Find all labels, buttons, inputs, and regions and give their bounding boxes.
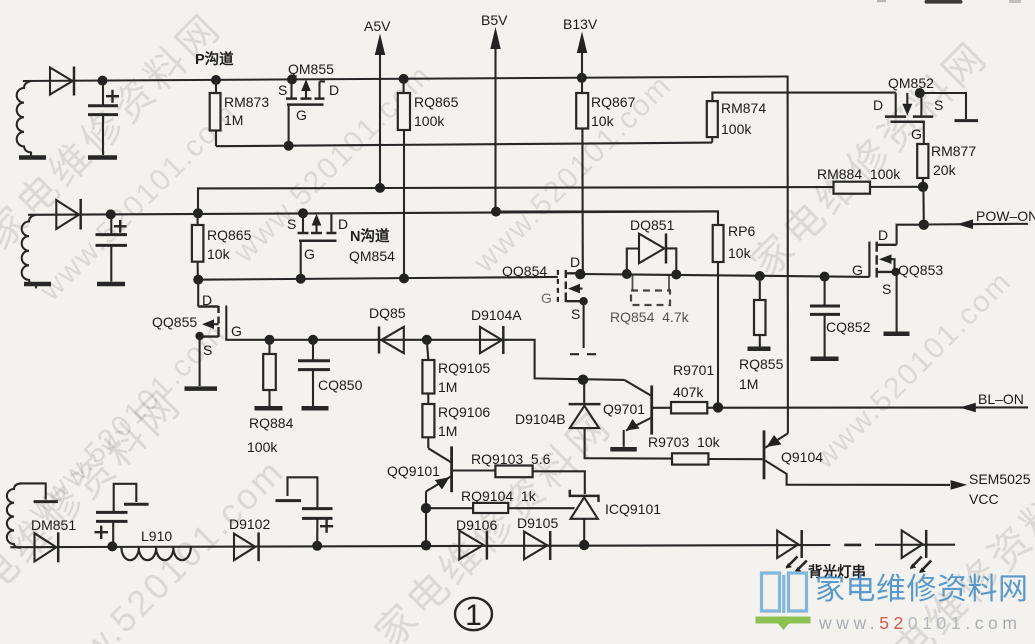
resistor RM877 20k [923,122,925,144]
ground (under RQ884) [255,406,283,411]
power rail B5V [494,47,496,212]
svg-text:家电维修资料网: 家电维修资料网 [815,573,1029,606]
transistor Q9701 (NPN) [650,386,653,435]
diode D9106 [459,531,483,560]
ground (under top-left coil) [19,155,46,160]
inductor T1b winding (second coil) [22,215,36,289]
wire main bottom row (right part) [875,544,955,546]
resistor RQ9104 1k (horizontal) [426,507,473,509]
ground (under CQ850) [302,406,329,411]
svg-text:ICQ9101: ICQ9101 [605,501,661,517]
svg-text:BL–ON: BL–ON [978,391,1024,407]
power rail A5V [379,53,381,188]
resistor RQ9105 1M [427,340,429,360]
wire LED series dash [844,544,861,547]
svg-text:L910: L910 [141,528,172,544]
page number circle 1 [455,598,492,630]
svg-text:RQ867: RQ867 [591,94,636,110]
svg-text:POW–ON: POW–ON [976,208,1035,224]
ground (under C2) [97,282,125,287]
svg-text:P沟道: P沟道 [195,50,234,68]
svg-text:N沟道: N沟道 [350,227,390,245]
diode D9102 [234,534,255,561]
capacitor C2 (electrolytic, second row) [110,214,112,234]
node (QM855 gate / gate row) [284,141,294,151]
node (QM855 source on rail) [287,74,297,84]
svg-text:CQ852: CQ852 [826,319,871,335]
wire BL-ON row (Q9701 base row, y~407.5) [653,406,1028,408]
node (row2 / C2 +) [106,209,116,219]
inductor T1a winding (top-left coil) [17,81,31,156]
node (row340 / RQ884 top) [265,335,275,345]
node (ICQ9101 / bottom row) [579,540,589,550]
resistor RP6 10k [496,211,719,225]
node (bottom row / C-d9 +) [312,541,322,551]
diode D1 (top-left rectifier) [50,68,73,95]
wire top rail P-channel (row1) [23,77,786,82]
wire row274 (B13V / QQ854 drain to QQ853 gate) [581,274,869,277]
node (rail1 / B13V / RQ867) [577,73,587,83]
svg-text:D9104B: D9104B [515,411,566,427]
node (bottom row / C-dm +) [107,541,117,551]
node (RQ9104 / bottom row) [421,540,431,550]
transistor QQ853 (MOSFET, sideways right) [868,242,870,277]
svg-text:B5V: B5V [481,12,508,28]
diode D9104B (zener-ish, cathode up) [583,380,585,403]
svg-text:RQ9104 1k: RQ9104 1k [461,488,537,504]
node (A5V on rail187) [375,183,385,193]
svg-text:1M: 1M [739,376,758,392]
svg-text:RQ865: RQ865 [207,227,252,243]
transistor QQ855 (MOSFET, sideways) [197,280,199,307]
resistor RM884 100k (horizontal) [834,182,871,194]
terminal arrow BL-ON (points left) [960,403,976,413]
diode D9105 [524,532,547,560]
wire row2 rail (y~213) [28,211,718,214]
svg-text:10k: 10k [207,246,231,262]
svg-text:QQ853: QQ853 [898,262,943,278]
resistor R9701 407k (horizontal) [671,402,707,413]
node (row340 / RQ9105 top) [422,335,432,345]
node (B5V / row2 / RP6 corner) [491,207,501,217]
svg-text:G: G [304,246,315,262]
transistor QQ854 (MOSFET, sideways) [566,272,580,274]
diode DQ851 (bracket mounted over row274) [627,249,639,274]
diode DM851 [35,533,57,561]
svg-text:G: G [231,323,242,339]
node (row278 / RQ865 100k bottom) [399,273,409,283]
ground (under RQ855) [748,347,771,352]
node (rail / C1 +) [98,76,108,86]
wire QQ855 gate bracket and row340 [226,306,624,380]
svg-text:RQ854 4.7k: RQ854 4.7k [610,309,690,325]
capacitor CQ852 [824,277,826,306]
node (row340 / CQ850 top) [308,335,318,345]
wire main bottom row (left part) [10,545,830,547]
node (RM877 / RM884 / POW-ON junction) [918,182,928,192]
svg-text:100k: 100k [247,439,278,455]
diode DQ85 (points left, on row340) [378,327,381,354]
svg-text:D: D [329,82,339,98]
capacitor C1 (electrolytic, top-left) [102,81,104,105]
ground (under QQ855 source) [185,386,218,391]
diode ICQ9101 (zener, cathode up) [570,490,599,502]
svg-text:G: G [911,126,922,142]
svg-text:1M: 1M [224,112,243,128]
capacitor CQ850 [312,340,314,360]
svg-text:S: S [287,216,296,232]
svg-text:S: S [571,306,580,322]
transistor QM852 (P-ch MOSFET top right) [895,93,897,116]
svg-text:D9104A: D9104A [471,307,522,323]
resistor RQ854 4.7k (dashed outline) [632,274,634,290]
LED LED1 (backlight string) [777,531,798,558]
resistor RM873 1M [215,80,217,93]
node (B13V / QQ854 drain) [575,269,585,279]
svg-text:10k: 10k [728,245,752,261]
svg-text:CQ850: CQ850 [318,377,363,393]
svg-text:407k: 407k [673,384,704,400]
svg-text:G: G [541,290,552,306]
wire rail y~187 (A5V / RM884 row) [198,187,923,214]
inductor DM851 winding (bottom-left coil with stub) [20,483,46,499]
svg-text:QQ855: QQ855 [152,314,197,330]
ground (under Q9701 emitter) [610,447,637,452]
svg-text:RQ9106: RQ9106 [438,404,490,420]
svg-text:RQ855: RQ855 [739,356,784,372]
svg-text:Q9104: Q9104 [781,449,823,465]
node (QM854 gate / row278) [296,274,306,284]
transistor QQ9101 (PNP) [428,448,451,462]
node (rail / RQ865 100k top) [399,74,409,84]
terminal arrow SEM5025 VCC (points right) [951,480,968,490]
transistor Q9104 (PNP) [763,430,766,479]
resistor RM874 100k [712,93,895,102]
wire gate row (RM873 bottom to RM874 bottom, y~144) [216,143,712,147]
svg-text:DQ851: DQ851 [630,217,675,233]
ground (under CQ852) [811,357,839,362]
transistor QM855 (P-ch MOSFET) [290,79,292,97]
svg-text:QM854: QM854 [349,248,395,264]
svg-text:D: D [202,292,212,308]
wire row278 (QQ855 D / QQ854 gate row) [198,277,558,280]
svg-text:100k: 100k [414,113,445,129]
terminal arrow POW-ON (points left) [957,219,973,229]
svg-text:20k: 20k [933,162,957,178]
svg-text:QQ854: QQ854 [502,263,547,279]
inductor L910 [121,546,190,560]
svg-text:Q9701: Q9701 [603,401,645,417]
svg-text:G: G [852,262,863,278]
node (rail / RM873 top) [211,75,221,85]
svg-text:RP6: RP6 [728,223,755,239]
svg-text:RQ865: RQ865 [414,94,459,110]
wire junction down to POW-ON node [922,187,924,225]
resistor RQ855 1M [759,276,761,300]
node (row278 / QQ855 drain) [193,275,203,285]
wire QQ9101 base to RQ9103 [453,469,496,471]
wire rail1 corner down to Q9104 emitter (long vertical x~787) [786,77,788,434]
svg-text:D: D [338,216,348,232]
svg-text:QM855: QM855 [288,61,334,77]
svg-text:B13V: B13V [563,16,598,32]
svg-text:1M: 1M [438,423,457,439]
resistor RQ9106 1M [427,394,429,405]
svg-text:S: S [934,97,943,113]
svg-text:DQ85: DQ85 [369,305,406,321]
svg-text:RQ884: RQ884 [249,415,294,431]
transistor QM854 (N-ch MOSFET) [302,213,304,232]
svg-text:S: S [203,342,212,358]
svg-text:D: D [878,227,888,243]
svg-text:SEM5025: SEM5025 [969,471,1031,487]
svg-text:R9703 10k: R9703 10k [648,434,721,450]
svg-text:1M: 1M [438,379,457,395]
svg-text:G: G [296,107,307,123]
node (DQ851 anode side) [622,269,632,279]
wire QM852 source stub to terminal bar [920,93,966,119]
svg-text:RM877: RM877 [931,143,976,159]
svg-text:D: D [873,97,883,113]
capacitor C-dm (electrolytic with chassis stub) [112,522,114,547]
svg-text:www.520101.com: www.520101.com [818,613,1022,633]
node (row274 / RQ855 top) [755,271,765,281]
svg-text:RQ9105: RQ9105 [438,360,490,376]
svg-text:D: D [570,254,580,270]
svg-text:R9701: R9701 [673,362,714,378]
node (QM852 S) [915,88,925,98]
svg-text:D9102: D9102 [229,516,270,532]
ground (under QQ853 source) [884,332,910,337]
LED LED2 (backlight string) [902,530,923,558]
diode D9104A (points right, on row340) [480,327,502,353]
node (DQ851 cathode side) [671,270,681,280]
resistor RQ865 100k [403,79,405,93]
svg-text:1: 1 [465,599,482,632]
node (row274 / CQ852 top) [820,272,830,282]
resistor RQ9103 5.6 (horizontal) [495,466,532,478]
node (POW-ON / QQ853 drain) [919,220,929,230]
node (row2 / rail187 drop / RQ865 10k top) [193,208,203,218]
resistor RQ867 10k [576,93,588,129]
node (QQ854 source / D9104B / Q9701 collector) [578,375,588,385]
svg-text:10k: 10k [591,113,615,129]
node (QM854 source on row2) [298,208,308,218]
svg-text:100k: 100k [721,121,752,137]
logo book icon (watermark brand, bottom right) [762,573,807,613]
svg-text:RM874: RM874 [721,100,766,116]
svg-text:D9105: D9105 [517,515,558,531]
svg-text:VCC: VCC [969,491,999,507]
node (QQ9101 emitter / RQ9104 row) [421,503,431,513]
svg-text:RQ9103 5.6: RQ9103 5.6 [471,451,551,467]
scan artifact top-right dark bar [925,0,963,4]
capacitor C-d9 (electrolytic with chassis stub) [316,519,318,546]
power rail B13V [581,51,583,93]
node (RP6 bottom / BL-ON row) [713,402,723,412]
svg-text:S: S [278,82,287,98]
svg-text:QM852: QM852 [888,75,934,91]
svg-text:S: S [882,281,891,297]
resistor R9703 10k (horizontal) [672,453,708,464]
svg-text:RM884 100k: RM884 100k [817,166,901,182]
ground (under second coil) [24,282,51,287]
resistor RQ884 100k [268,340,270,354]
svg-text:A5V: A5V [364,18,391,34]
ground (under C1) [88,155,117,160]
svg-text:RM873: RM873 [224,94,269,110]
svg-text:QQ9101: QQ9101 [387,463,440,479]
wire POW-ON stub [924,223,1028,226]
svg-text:D9106: D9106 [456,517,497,533]
resistor RQ865 10k [197,213,199,225]
diode D2 (second rectifier) [56,200,79,229]
svg-text:DM851: DM851 [31,517,76,533]
